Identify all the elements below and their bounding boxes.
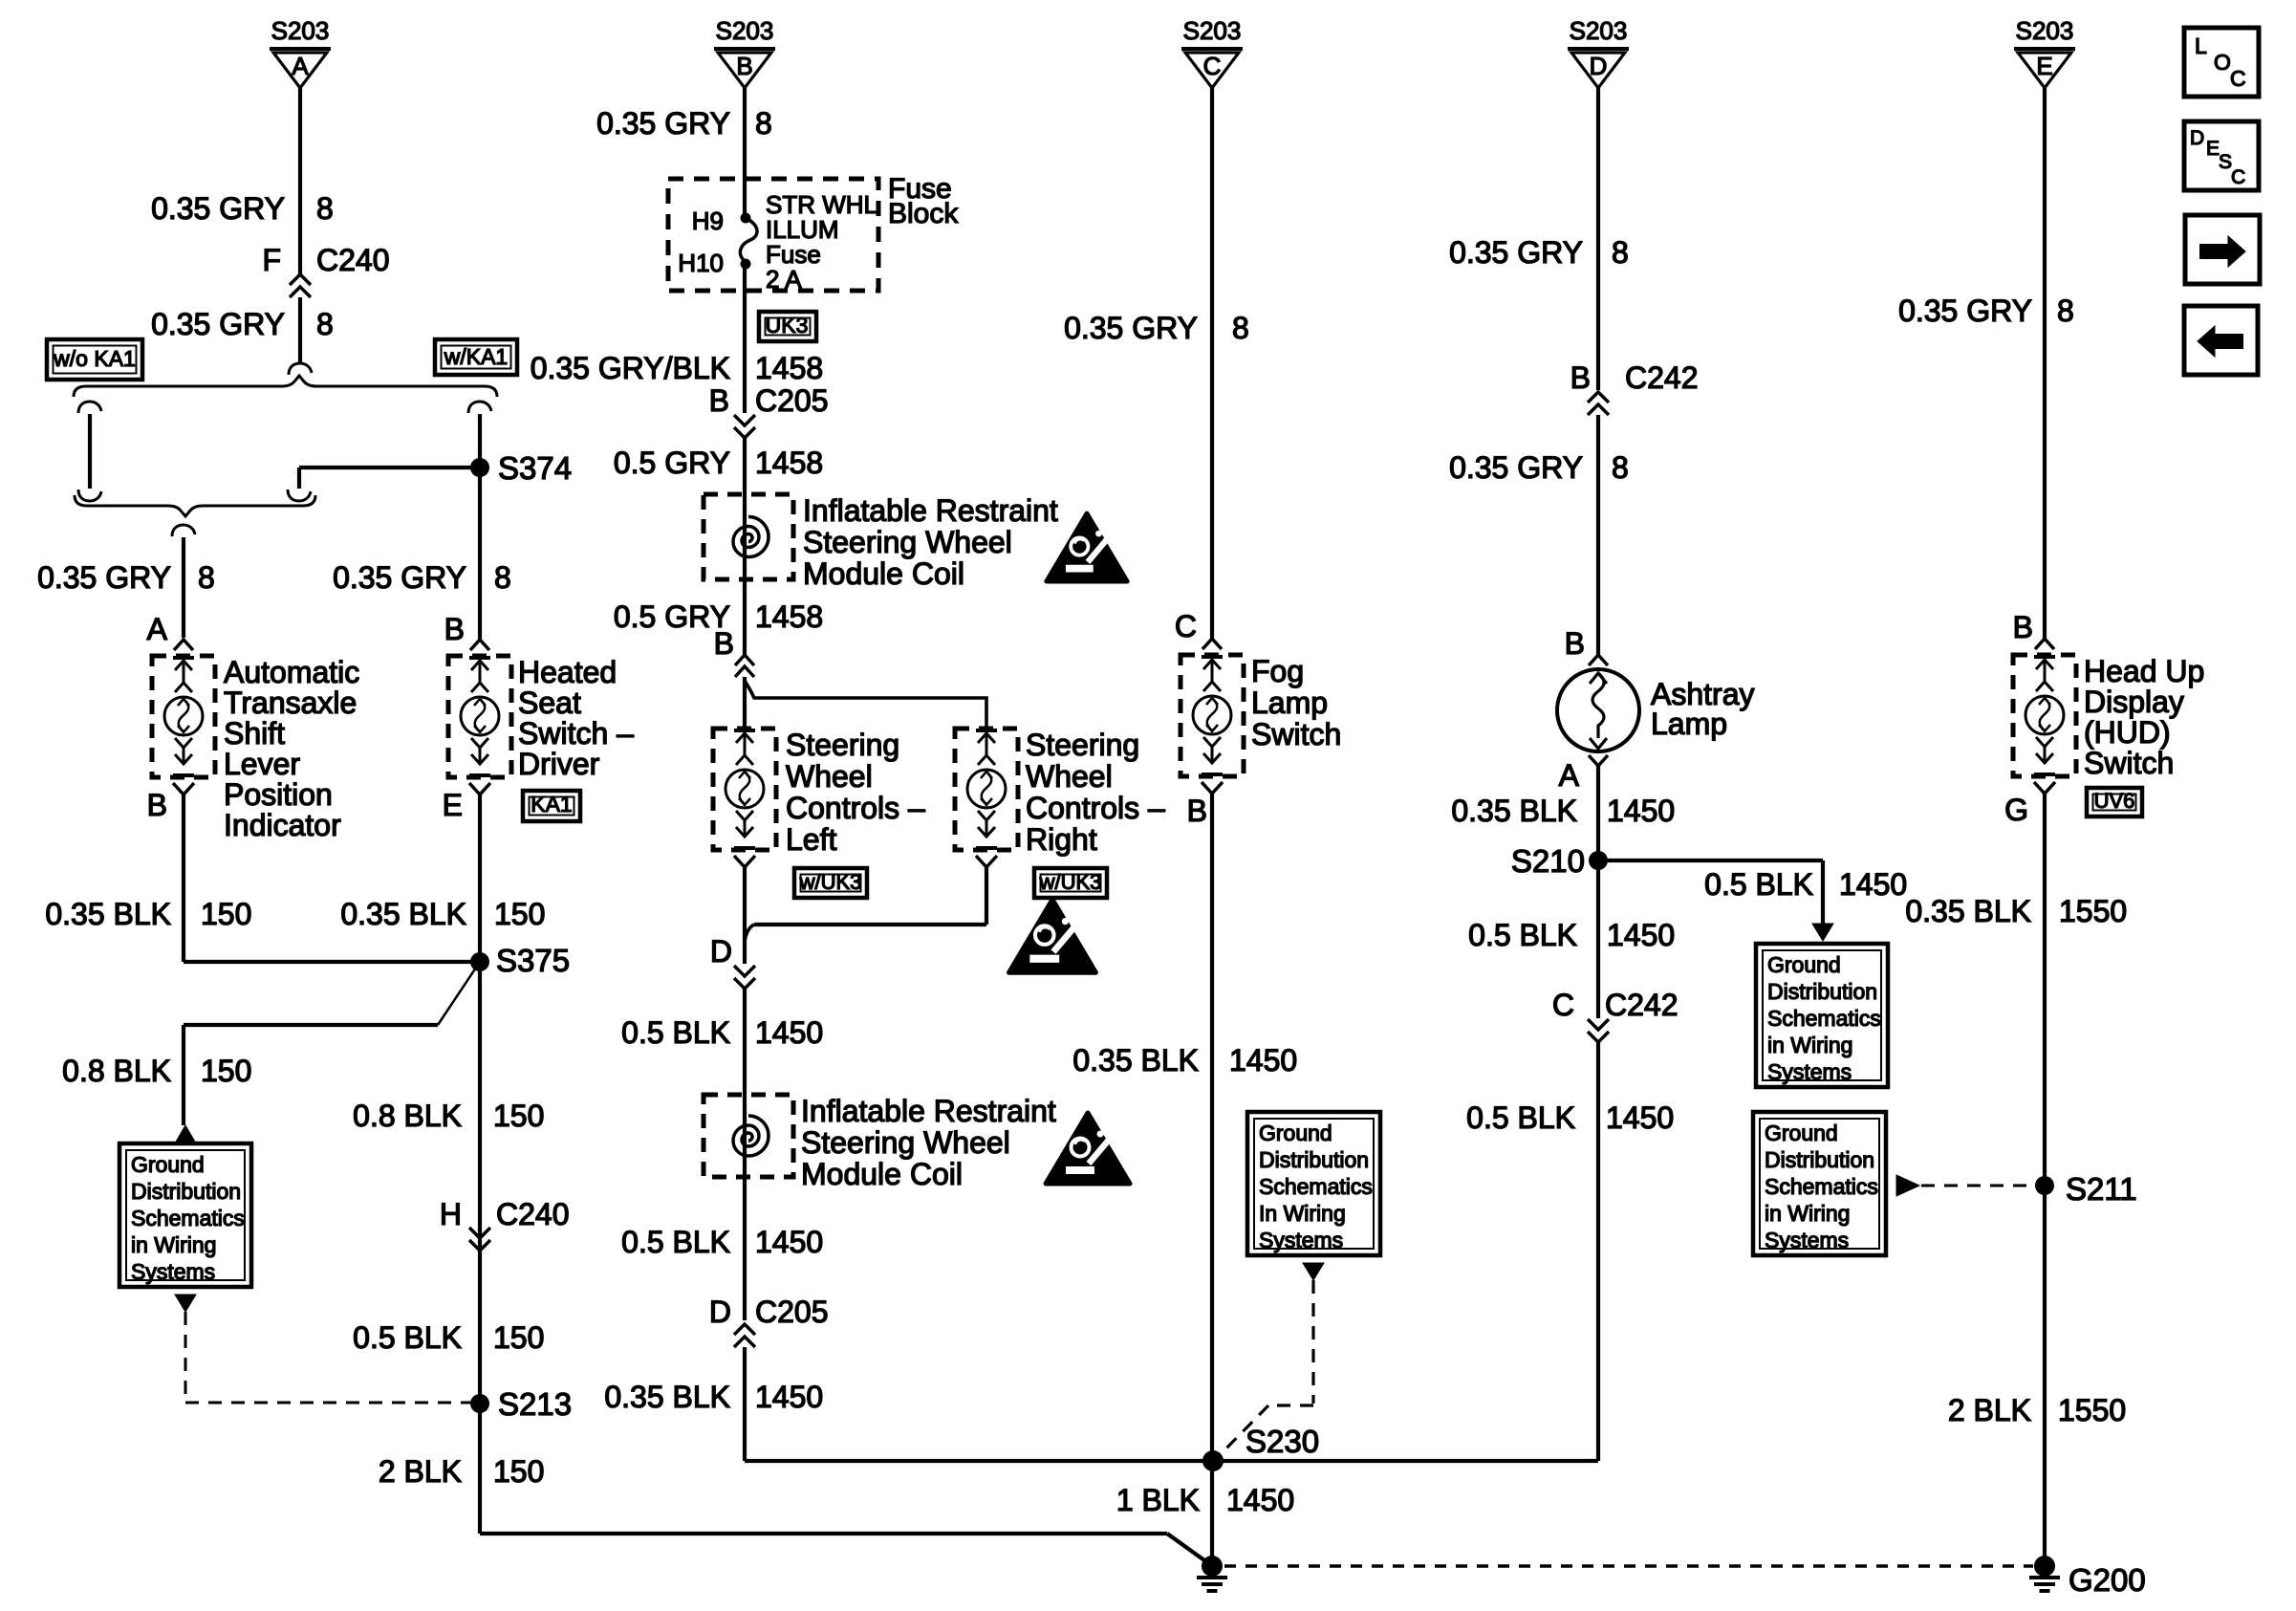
svg-text:H: H (440, 1197, 462, 1231)
svg-text:1458: 1458 (755, 599, 823, 634)
svg-text:0.35 GRY/BLK: 0.35 GRY/BLK (531, 351, 730, 385)
svg-text:0.35 BLK: 0.35 BLK (340, 897, 466, 931)
svg-text:in Wiring: in Wiring (131, 1232, 216, 1257)
svg-text:w/o KA1: w/o KA1 (53, 346, 136, 371)
svg-text:L: L (2195, 33, 2207, 58)
svg-text:0.8 BLK: 0.8 BLK (62, 1054, 171, 1088)
svg-text:0.35 BLK: 0.35 BLK (1072, 1043, 1199, 1078)
svg-text:S203: S203 (716, 16, 774, 45)
svg-text:0.35 BLK: 0.35 BLK (1905, 894, 2031, 928)
svg-text:Heated: Heated (518, 655, 617, 689)
svg-text:8: 8 (2057, 294, 2074, 328)
svg-text:E: E (2206, 138, 2220, 160)
svg-text:Schematics: Schematics (1765, 1174, 1878, 1199)
svg-text:Shift: Shift (224, 716, 285, 751)
svg-text:G200: G200 (2069, 1562, 2146, 1598)
svg-text:8: 8 (1612, 235, 1629, 270)
svg-text:Steering: Steering (1026, 728, 1139, 762)
svg-text:Right: Right (1026, 822, 1097, 857)
svg-text:H9: H9 (692, 207, 724, 235)
svg-text:Position: Position (224, 777, 333, 812)
svg-text:150: 150 (201, 1054, 251, 1088)
svg-text:0.5 BLK: 0.5 BLK (1704, 867, 1813, 902)
svg-text:Lamp: Lamp (1251, 686, 1328, 720)
svg-text:1 BLK: 1 BLK (1116, 1483, 1200, 1517)
svg-text:E: E (443, 788, 463, 822)
svg-text:Module Coil: Module Coil (801, 1157, 963, 1191)
svg-text:KA1: KA1 (531, 792, 572, 816)
svg-text:0.5 BLK: 0.5 BLK (1468, 918, 1577, 952)
svg-text:A: A (292, 52, 309, 80)
svg-text:In Wiring: In Wiring (1259, 1201, 1346, 1226)
svg-text:2 BLK: 2 BLK (1948, 1393, 2031, 1427)
svg-text:Controls –: Controls – (786, 791, 925, 825)
svg-text:B: B (714, 626, 734, 661)
svg-text:Schematics: Schematics (131, 1206, 245, 1230)
svg-text:8: 8 (755, 106, 772, 141)
svg-text:C242: C242 (1605, 988, 1679, 1022)
svg-text:Distribution: Distribution (1259, 1147, 1369, 1172)
svg-text:0.35 GRY: 0.35 GRY (1898, 294, 2032, 328)
svg-text:Ground: Ground (131, 1152, 205, 1177)
svg-text:C240: C240 (496, 1197, 570, 1231)
svg-text:in Wiring: in Wiring (1767, 1033, 1852, 1057)
svg-text:B: B (444, 612, 465, 646)
svg-text:C: C (1203, 52, 1222, 80)
svg-text:S374: S374 (498, 450, 572, 486)
svg-text:B: B (1187, 794, 1207, 828)
svg-text:Ground: Ground (1765, 1121, 1838, 1145)
svg-text:1450: 1450 (1229, 1043, 1297, 1078)
svg-text:0.35 BLK: 0.35 BLK (45, 897, 171, 931)
svg-text:S210: S210 (1511, 843, 1585, 879)
svg-text:G: G (2004, 793, 2028, 827)
svg-text:0.5 BLK: 0.5 BLK (621, 1015, 730, 1050)
svg-text:A: A (1559, 758, 1580, 793)
svg-text:1450: 1450 (1607, 794, 1675, 828)
svg-text:0.35 GRY: 0.35 GRY (1449, 235, 1583, 270)
svg-text:F: F (262, 243, 281, 277)
svg-text:Schematics: Schematics (1767, 1006, 1881, 1031)
svg-text:S203: S203 (271, 16, 330, 45)
svg-text:150: 150 (493, 1099, 544, 1133)
svg-text:UK3: UK3 (766, 313, 809, 337)
svg-text:S: S (2219, 151, 2232, 173)
svg-text:Left: Left (786, 822, 836, 857)
svg-text:B: B (2013, 610, 2033, 644)
svg-text:0.35 GRY: 0.35 GRY (1449, 450, 1583, 485)
svg-text:Lamp: Lamp (1651, 707, 1727, 741)
svg-text:0.5 GRY: 0.5 GRY (614, 446, 730, 480)
svg-text:Systems: Systems (1765, 1228, 1849, 1252)
svg-text:B: B (1570, 360, 1591, 395)
svg-text:C205: C205 (755, 1295, 829, 1329)
svg-text:Transaxle: Transaxle (224, 686, 357, 720)
svg-text:Automatic: Automatic (224, 655, 359, 689)
svg-text:0.35 BLK: 0.35 BLK (604, 1380, 730, 1414)
svg-text:8: 8 (316, 191, 334, 226)
svg-text:0.35 GRY: 0.35 GRY (151, 191, 285, 226)
svg-text:Steering: Steering (786, 728, 899, 762)
svg-text:Wheel: Wheel (786, 759, 873, 794)
svg-text:2 BLK: 2 BLK (379, 1454, 462, 1489)
svg-text:Steering Wheel: Steering Wheel (801, 1125, 1010, 1160)
svg-text:Systems: Systems (1259, 1228, 1343, 1252)
svg-text:0.35 GRY: 0.35 GRY (1064, 311, 1198, 345)
svg-text:0.8 BLK: 0.8 BLK (353, 1099, 462, 1133)
svg-text:A: A (147, 612, 168, 646)
svg-text:UV6: UV6 (2094, 789, 2135, 813)
svg-text:w/UK3: w/UK3 (1039, 870, 1102, 894)
svg-text:Distribution: Distribution (1767, 979, 1877, 1004)
svg-text:Systems: Systems (1767, 1059, 1852, 1084)
svg-text:Inflatable Restraint: Inflatable Restraint (803, 493, 1058, 528)
svg-text:(HUD): (HUD) (2084, 715, 2171, 750)
svg-text:0.5 BLK: 0.5 BLK (1466, 1100, 1575, 1135)
svg-text:Seat: Seat (518, 686, 581, 720)
svg-text:C: C (1175, 609, 1197, 643)
svg-text:Switch: Switch (1251, 717, 1341, 751)
svg-text:Ground: Ground (1259, 1121, 1332, 1145)
svg-text:Fog: Fog (1251, 654, 1304, 688)
svg-text:1450: 1450 (1607, 918, 1675, 952)
svg-text:1450: 1450 (755, 1015, 823, 1050)
svg-text:Switch –: Switch – (518, 716, 634, 751)
svg-text:1550: 1550 (2059, 894, 2127, 928)
svg-text:B: B (147, 788, 167, 822)
svg-text:Block: Block (888, 198, 959, 229)
svg-text:8: 8 (316, 307, 334, 341)
svg-text:Controls –: Controls – (1026, 791, 1165, 825)
svg-text:Switch: Switch (2084, 746, 2174, 780)
svg-text:D: D (2190, 127, 2204, 149)
svg-text:D: D (709, 1295, 731, 1329)
svg-text:Module Coil: Module Coil (803, 556, 964, 591)
svg-text:150: 150 (494, 897, 545, 931)
svg-text:S211: S211 (2066, 1171, 2137, 1207)
svg-text:8: 8 (494, 560, 511, 595)
svg-text:0.35 GRY: 0.35 GRY (37, 560, 171, 595)
svg-text:0.5 BLK: 0.5 BLK (621, 1225, 730, 1259)
svg-text:E: E (2036, 52, 2052, 80)
svg-text:H10: H10 (678, 249, 724, 277)
svg-text:1450: 1450 (1606, 1100, 1674, 1135)
svg-text:1450: 1450 (755, 1380, 823, 1414)
svg-text:1450: 1450 (1839, 867, 1907, 902)
svg-text:Display: Display (2084, 685, 2184, 719)
svg-text:Ground: Ground (1767, 952, 1841, 977)
svg-text:O: O (2214, 50, 2231, 75)
svg-text:S203: S203 (1183, 16, 1242, 45)
svg-text:0.35 GRY: 0.35 GRY (596, 106, 730, 141)
svg-text:Steering Wheel: Steering Wheel (803, 525, 1012, 559)
svg-text:150: 150 (493, 1454, 544, 1489)
svg-text:8: 8 (1612, 450, 1629, 485)
svg-text:1458: 1458 (755, 446, 823, 480)
svg-text:0.5 BLK: 0.5 BLK (353, 1320, 462, 1355)
svg-text:150: 150 (201, 897, 251, 931)
svg-text:D: D (1590, 52, 1608, 80)
svg-text:1550: 1550 (2058, 1393, 2126, 1427)
svg-text:S230: S230 (1245, 1424, 1319, 1459)
svg-text:1450: 1450 (755, 1225, 823, 1259)
svg-text:Lever: Lever (224, 747, 300, 781)
svg-text:B: B (709, 383, 729, 418)
svg-text:S203: S203 (1570, 16, 1628, 45)
svg-text:C: C (1552, 988, 1574, 1022)
svg-text:0.35 GRY: 0.35 GRY (151, 307, 285, 341)
svg-text:Head Up: Head Up (2084, 654, 2204, 688)
svg-text:C: C (2230, 66, 2246, 91)
svg-text:1450: 1450 (1226, 1483, 1294, 1517)
svg-text:Wheel: Wheel (1026, 759, 1113, 794)
svg-text:0.35 GRY: 0.35 GRY (333, 560, 466, 595)
svg-text:150: 150 (493, 1320, 544, 1355)
svg-text:B: B (736, 52, 752, 80)
svg-text:8: 8 (1232, 311, 1249, 345)
svg-text:Driver: Driver (518, 747, 600, 781)
svg-text:C240: C240 (316, 243, 390, 277)
svg-text:Distribution: Distribution (1765, 1147, 1874, 1172)
svg-text:D: D (710, 934, 732, 969)
svg-text:Indicator: Indicator (224, 808, 341, 842)
svg-text:Systems: Systems (131, 1259, 215, 1284)
svg-text:1458: 1458 (755, 351, 823, 385)
svg-text:S375: S375 (496, 943, 570, 978)
svg-text:w/KA1: w/KA1 (444, 344, 508, 369)
svg-text:Distribution: Distribution (131, 1179, 241, 1204)
svg-text:in Wiring: in Wiring (1765, 1201, 1850, 1226)
svg-text:Inflatable Restraint: Inflatable Restraint (801, 1094, 1056, 1128)
svg-text:B: B (1565, 626, 1585, 661)
svg-text:C205: C205 (755, 383, 829, 418)
svg-text:C242: C242 (1625, 360, 1699, 395)
svg-text:S203: S203 (2016, 16, 2074, 45)
svg-text:S213: S213 (498, 1386, 572, 1422)
svg-text:C: C (2231, 166, 2245, 188)
svg-text:2 A: 2 A (766, 265, 802, 294)
svg-text:Schematics: Schematics (1259, 1174, 1373, 1199)
svg-text:w/UK3: w/UK3 (799, 870, 862, 894)
svg-text:0.35 BLK: 0.35 BLK (1451, 794, 1577, 828)
svg-text:8: 8 (198, 560, 215, 595)
